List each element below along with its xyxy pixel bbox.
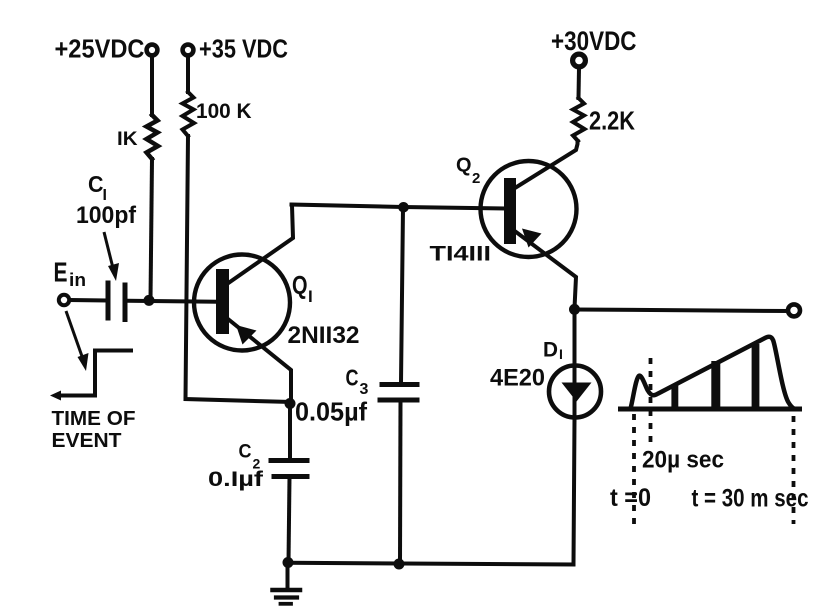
svg-text:t =0: t =0 bbox=[610, 484, 651, 512]
svg-text:E: E bbox=[54, 257, 68, 288]
svg-text:3: 3 bbox=[360, 381, 369, 398]
svg-text:2: 2 bbox=[472, 170, 480, 187]
svg-text:C: C bbox=[88, 171, 104, 197]
svg-text:Q: Q bbox=[456, 155, 472, 177]
svg-text:+30VDC: +30VDC bbox=[551, 26, 637, 56]
svg-text:t = 30 m sec: t = 30 m sec bbox=[692, 485, 809, 513]
svg-text:2NII32: 2NII32 bbox=[288, 322, 360, 349]
svg-text:EVENT: EVENT bbox=[52, 430, 122, 452]
svg-text:C: C bbox=[346, 365, 359, 391]
svg-text:100 K: 100 K bbox=[196, 100, 252, 123]
svg-text:TIME OF: TIME OF bbox=[52, 408, 136, 430]
svg-text:Q: Q bbox=[292, 270, 308, 300]
svg-text:100pf: 100pf bbox=[76, 202, 137, 229]
svg-text:2.2K: 2.2K bbox=[589, 106, 635, 136]
svg-text:0.05µf: 0.05µf bbox=[295, 397, 367, 427]
svg-text:IK: IK bbox=[117, 128, 138, 150]
svg-text:+25VDC: +25VDC bbox=[55, 36, 145, 64]
svg-text:+35 VDC: +35 VDC bbox=[199, 36, 288, 64]
svg-text:4E20: 4E20 bbox=[490, 365, 545, 392]
svg-text:0.Iµf: 0.Iµf bbox=[208, 468, 264, 491]
svg-text:TI4III: TI4III bbox=[430, 242, 492, 265]
svg-text:I: I bbox=[308, 287, 313, 306]
svg-text:20µ sec: 20µ sec bbox=[642, 447, 724, 474]
svg-text:I: I bbox=[559, 346, 563, 362]
svg-text:C: C bbox=[239, 441, 252, 463]
svg-text:in: in bbox=[69, 270, 86, 290]
svg-text:D: D bbox=[543, 338, 558, 361]
